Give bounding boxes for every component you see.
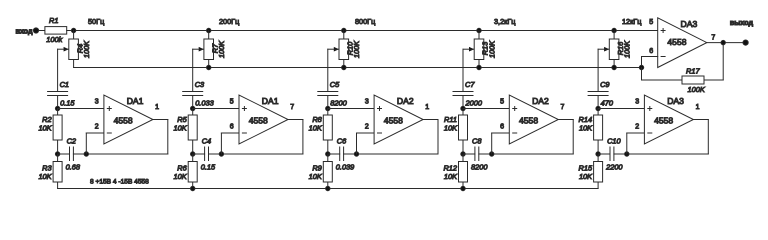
node pot R4 top on top rail — [71, 28, 75, 32]
node R8/R9/C6 junction — [326, 152, 330, 156]
wire — [597, 154, 599, 162]
svg-text:DA1: DA1 — [262, 96, 279, 106]
capacitor C3 — [183, 92, 203, 96]
svg-text:4558: 4558 — [654, 115, 673, 125]
op-amp DA2 (band 3) — [374, 95, 423, 144]
resistor R5 10K — [188, 115, 197, 140]
resistor R2 10K — [53, 115, 62, 140]
node C7 to op-amp + input — [461, 106, 465, 110]
wire wiper down to C9 — [597, 49, 599, 91]
wire — [462, 109, 464, 116]
wire wiper of R13 — [463, 48, 474, 50]
node pot R7 top on top rail — [207, 28, 211, 32]
wire — [57, 96, 59, 109]
svg-text:1: 1 — [155, 104, 159, 111]
capacitor C5 — [318, 92, 338, 96]
svg-text:7: 7 — [561, 104, 565, 111]
potentiometer R16 100K — [604, 39, 619, 60]
output terminal node — [743, 40, 748, 45]
wire — [57, 109, 59, 116]
svg-text:C1: C1 — [60, 80, 69, 89]
wire output down to feedback line — [572, 120, 574, 155]
svg-text:12кГц: 12кГц — [622, 17, 642, 26]
wire to + input pin 5 — [193, 108, 239, 110]
svg-text:7: 7 — [290, 104, 294, 111]
svg-text:DA2: DA2 — [532, 96, 549, 106]
wire — [478, 31, 480, 40]
wire — [57, 182, 59, 189]
node R9 on bottom rail — [326, 186, 330, 190]
capacitor C7 — [453, 92, 473, 96]
wire — [193, 153, 205, 155]
wire wiper of R16 — [598, 48, 609, 50]
wire wiper of R7 — [193, 48, 204, 50]
svg-text:10K: 10K — [38, 172, 52, 181]
wire feedback line to op-amp output — [479, 153, 573, 155]
node feedback / - input — [354, 152, 358, 156]
svg-text:C6: C6 — [337, 137, 347, 146]
wire wiper of R10 — [328, 48, 339, 50]
svg-text:4558: 4558 — [114, 115, 133, 125]
svg-text:3: 3 — [635, 99, 639, 106]
wire output down to feedback line — [167, 120, 169, 155]
node pot R10 top on top rail — [342, 28, 346, 32]
wire — [327, 140, 329, 154]
svg-text:вход: вход — [15, 26, 33, 35]
svg-text:4558: 4558 — [519, 115, 538, 125]
capacitor C8 — [475, 147, 479, 161]
wire feedback line to op-amp output — [614, 153, 708, 155]
svg-text:10K: 10K — [174, 123, 188, 132]
wire to - input pin 6 — [221, 132, 239, 134]
resistor R3 10K — [53, 162, 62, 183]
svg-text:2: 2 — [95, 124, 99, 131]
wire — [192, 140, 194, 154]
potentiometer R4 100K — [64, 39, 79, 60]
node pot R16 bottom on second rail — [612, 65, 616, 69]
resistor R17 — [682, 76, 704, 84]
svg-text:10K: 10K — [579, 123, 593, 132]
svg-text:100K: 100K — [217, 40, 226, 58]
svg-text:10K: 10K — [174, 172, 188, 181]
svg-text:800Гц: 800Гц — [355, 17, 376, 26]
resistor R11 10K — [459, 115, 468, 140]
wire — [462, 182, 464, 189]
wire — [478, 60, 480, 68]
node R11/R12/C8 junction — [461, 152, 465, 156]
resistor R12 10K — [459, 162, 468, 183]
wire output pin 7 — [288, 119, 303, 121]
wire output pin 1 — [423, 119, 438, 121]
svg-text:8200: 8200 — [471, 163, 488, 172]
node R2/R3/C2 junction — [55, 152, 59, 156]
wire bottom common rail — [58, 188, 599, 190]
svg-text:0.15: 0.15 — [60, 98, 75, 107]
wire — [327, 109, 329, 116]
wire to + input pin 3 — [598, 108, 644, 110]
wire — [208, 60, 210, 68]
svg-text:R1: R1 — [49, 16, 58, 25]
wire output down to feedback line — [707, 120, 709, 155]
wire — [73, 31, 75, 40]
svg-text:5: 5 — [500, 99, 504, 106]
svg-text:10K: 10K — [444, 172, 458, 181]
svg-text:6: 6 — [649, 48, 653, 55]
svg-text:3: 3 — [95, 99, 99, 106]
wire — [343, 60, 345, 68]
svg-text:4558: 4558 — [249, 115, 268, 125]
wire output pin 1 — [153, 119, 168, 121]
svg-text:10K: 10K — [579, 172, 593, 181]
node feedback / - input — [219, 152, 223, 156]
input terminal node — [33, 28, 38, 33]
svg-text:5: 5 — [649, 19, 653, 26]
svg-text:10K: 10K — [309, 172, 323, 181]
node R14/R15/C10 junction — [596, 152, 600, 156]
svg-text:C10: C10 — [607, 137, 621, 146]
wire — [39, 30, 45, 32]
wire — [73, 60, 75, 68]
wire — [328, 153, 340, 155]
wire to - input pin 2 — [86, 132, 104, 134]
svg-text:C5: C5 — [330, 80, 340, 89]
svg-text:0.68: 0.68 — [66, 163, 81, 172]
svg-text:7: 7 — [711, 34, 715, 41]
wire — [613, 31, 615, 40]
wire — [462, 154, 464, 162]
wire - input stub vertical — [356, 133, 358, 154]
svg-text:100K: 100K — [688, 85, 706, 94]
wire wiper down to C7 — [462, 49, 464, 91]
wire wiper of R4 — [58, 48, 69, 50]
node pot R10 bottom on second rail — [342, 65, 346, 69]
wire — [192, 109, 194, 116]
wire — [57, 140, 59, 154]
wire to - input pin 2 — [627, 132, 645, 134]
wire wiper down to C1 — [57, 49, 59, 91]
wire top bus rail (to DA3 pin 5) — [74, 30, 658, 32]
node second rail / pin 6 / R17 — [639, 65, 643, 69]
wire — [613, 60, 615, 68]
op-amp U_out DA3 (summing) — [658, 18, 707, 68]
svg-text:0.15: 0.15 — [201, 163, 216, 172]
node output / R17 feedback — [721, 40, 725, 44]
op-amp DA1 (band 1) — [104, 95, 153, 144]
svg-text:50Гц: 50Гц — [88, 17, 105, 26]
potentiometer R10 100K — [334, 39, 349, 60]
wire feedback line to op-amp output — [209, 153, 303, 155]
svg-text:2: 2 — [635, 124, 639, 131]
svg-text:8 +15В 4 -15В 4558: 8 +15В 4 -15В 4558 — [90, 178, 149, 185]
svg-text:200Гц: 200Гц — [219, 17, 240, 26]
svg-text:C8: C8 — [472, 137, 482, 146]
wire — [327, 154, 329, 162]
wire — [463, 153, 475, 155]
node C1 to op-amp + input — [55, 106, 59, 110]
svg-text:выход: выход — [730, 18, 754, 27]
svg-text:C4: C4 — [202, 137, 211, 146]
svg-text:470: 470 — [601, 98, 614, 107]
svg-text:4558: 4558 — [384, 115, 403, 125]
wire — [343, 31, 345, 40]
svg-text:DA3: DA3 — [667, 96, 684, 106]
wire R17 right — [704, 79, 723, 81]
wire - input stub vertical — [85, 133, 87, 154]
svg-text:100K: 100K — [352, 40, 361, 58]
wire — [327, 182, 329, 189]
wire - input stub vertical — [220, 133, 222, 154]
svg-text:1: 1 — [696, 104, 700, 111]
wire to - input pin 2 — [357, 132, 375, 134]
node C3 to op-amp + input — [191, 106, 195, 110]
svg-text:10K: 10K — [444, 123, 458, 132]
wire to + input pin 5 — [463, 108, 509, 110]
resistor R14 10K — [594, 115, 603, 140]
capacitor C6 — [340, 147, 344, 161]
wire output down to feedback line — [302, 120, 304, 155]
svg-text:10K: 10K — [38, 123, 52, 132]
svg-text:2: 2 — [365, 124, 369, 131]
capacitor C1 — [48, 92, 68, 96]
capacitor C9 — [588, 92, 608, 96]
svg-text:DA3: DA3 — [681, 19, 698, 29]
wire wiper down to C3 — [192, 49, 194, 91]
svg-text:C2: C2 — [67, 137, 76, 146]
wire — [327, 96, 329, 109]
svg-text:C9: C9 — [600, 80, 609, 89]
resistor R15 10K — [594, 162, 603, 183]
resistor R9 10K — [323, 162, 332, 183]
wire — [597, 140, 599, 154]
node R5/R6/C4 junction — [191, 152, 195, 156]
svg-text:4558: 4558 — [667, 37, 686, 47]
wire second bus rail (to DA3 pin 6) — [74, 67, 642, 69]
wire to + input pin 3 — [328, 108, 374, 110]
wire to R17 left — [642, 79, 683, 81]
svg-text:2200: 2200 — [605, 163, 623, 172]
wire — [192, 154, 194, 162]
wire wiper down to C5 — [327, 49, 329, 91]
node feedback / - input — [490, 152, 494, 156]
node pot R7 bottom on second rail — [207, 65, 211, 69]
svg-text:DA2: DA2 — [397, 96, 414, 106]
wire output pin 1 — [693, 119, 708, 121]
capacitor C4 — [205, 147, 209, 161]
svg-text:100K: 100K — [487, 40, 496, 58]
node pot R16 top on top rail — [612, 28, 616, 32]
wire output pin 7 — [707, 42, 743, 44]
potentiometer R13 100K — [469, 39, 484, 60]
resistor R8 10K — [323, 115, 332, 140]
node C5 to op-amp + input — [326, 106, 330, 110]
wire — [57, 154, 59, 162]
capacitor C10 — [610, 147, 614, 161]
svg-text:C3: C3 — [195, 80, 205, 89]
svg-text:1: 1 — [425, 104, 429, 111]
node C9 to op-amp + input — [596, 106, 600, 110]
wire — [58, 153, 70, 155]
svg-text:3: 3 — [365, 99, 369, 106]
node R12 on bottom rail — [461, 186, 465, 190]
svg-text:2000: 2000 — [465, 98, 483, 107]
wire — [462, 96, 464, 109]
svg-text:DA1: DA1 — [127, 96, 144, 106]
wire - stub down to second rail — [641, 57, 643, 68]
wire - input stub vertical — [626, 133, 628, 154]
wire down to R17 — [641, 68, 643, 81]
svg-text:C7: C7 — [465, 80, 475, 89]
wire — [597, 109, 599, 116]
svg-text:3,2кГц: 3,2кГц — [494, 17, 516, 26]
wire output pin 7 — [558, 119, 573, 121]
node feedback / - input — [84, 152, 88, 156]
wire - input stub vertical — [491, 133, 493, 154]
wire — [462, 140, 464, 154]
wire — [192, 182, 194, 189]
resistor R6 10K — [188, 162, 197, 183]
capacitor C2 — [70, 147, 74, 161]
op-amp DA2 (band 4) — [509, 95, 558, 144]
wire to + input pin 3 — [58, 108, 104, 110]
wire — [597, 96, 599, 109]
node feedback / - input — [625, 152, 629, 156]
wire output down to feedback line — [437, 120, 439, 155]
svg-text:0.033: 0.033 — [195, 98, 214, 107]
svg-text:100K: 100K — [82, 40, 91, 58]
op-amp DA1 (band 2) — [239, 95, 288, 144]
wire feedback line to op-amp output — [344, 153, 438, 155]
svg-text:0.039: 0.039 — [336, 163, 355, 172]
node pot R13 bottom on second rail — [477, 65, 481, 69]
svg-text:6: 6 — [500, 124, 504, 131]
node R6 on bottom rail — [191, 186, 195, 190]
svg-text:100K: 100K — [623, 40, 632, 58]
wire — [598, 153, 610, 155]
wire up to output node — [722, 43, 724, 80]
wire — [67, 30, 74, 32]
wire — [597, 182, 599, 189]
svg-text:100k: 100k — [46, 35, 62, 44]
svg-text:5: 5 — [230, 99, 234, 106]
wire feedback line to op-amp output — [73, 153, 167, 155]
potentiometer R7 100K — [199, 39, 214, 60]
node pot R13 top on top rail — [477, 28, 481, 32]
resistor R1 — [45, 27, 67, 34]
svg-text:R17: R17 — [686, 67, 700, 76]
wire to - input pin 6 — [492, 132, 510, 134]
wire - input pin 6 stub — [642, 56, 658, 58]
wire — [208, 31, 210, 40]
op-amp DA3 (band 5) — [644, 95, 693, 144]
svg-text:10K: 10K — [309, 123, 323, 132]
svg-text:6: 6 — [230, 124, 234, 131]
wire — [192, 96, 194, 109]
svg-text:8200: 8200 — [330, 98, 347, 107]
